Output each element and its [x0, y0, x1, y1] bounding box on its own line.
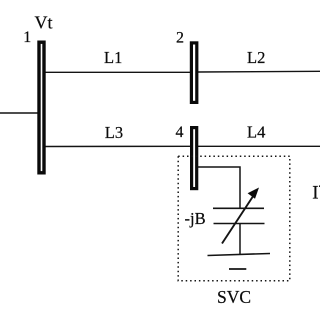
wire bus 4 to SVC branch — [198, 167, 240, 208]
bus 1 — [39, 42, 44, 173]
wire L4 (bus 4 to right edge) — [198, 145, 320, 147]
svg-text:I: I — [312, 182, 318, 203]
svg-text:2: 2 — [176, 30, 184, 47]
wire from infinite source (left edge) to bus 1 — [0, 112, 38, 114]
clipped letter n after I — [319, 185, 320, 187]
ground stroke 2 — [229, 268, 246, 270]
svg-text:Vt: Vt — [35, 13, 53, 33]
SVC dotted box — [178, 156, 290, 281]
svg-text:L3: L3 — [105, 123, 123, 142]
bus 4 — [192, 128, 197, 189]
wire capacitor to ground — [239, 224, 241, 256]
svg-text:L4: L4 — [247, 122, 265, 141]
bus 2 — [191, 43, 196, 103]
wire L2 (bus 2 to right edge) — [198, 70, 320, 73]
svg-text:1: 1 — [23, 29, 31, 46]
capacitor plate top — [213, 207, 264, 209]
svg-text:L2: L2 — [247, 48, 265, 67]
svg-text:-jB: -jB — [185, 209, 206, 228]
wire L3 (bus 1 to bus 4) — [45, 145, 191, 147]
ground bar — [208, 254, 271, 256]
capacitor plate bottom — [214, 223, 265, 225]
svg-text:L1: L1 — [104, 48, 122, 67]
wire L1 (bus 1 to bus 2) — [45, 71, 191, 73]
arrowhead — [248, 188, 259, 199]
svg-text:SVC: SVC — [217, 287, 251, 307]
variable-susceptance arrow shaft — [222, 194, 255, 244]
svg-text:4: 4 — [176, 124, 184, 141]
